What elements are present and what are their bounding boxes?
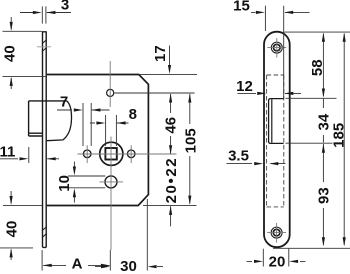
dim 40 lower — [0, 191, 42, 260]
hidden lock case (dashed) — [267, 75, 284, 207]
spindle follower circle — [100, 142, 123, 165]
left fixing hole — [83, 150, 91, 158]
dim 8 arrows — [96, 121, 125, 124]
svg-text:40: 40 — [1, 45, 18, 62]
svg-text:3: 3 — [61, 0, 69, 14]
svg-text:8: 8 — [129, 106, 137, 123]
dim 30 (spindle to case back) — [95, 266, 163, 268]
dim 7 (left hole dia) extension lines — [57, 103, 110, 146]
striking plate outline (rounded ends) — [264, 32, 290, 248]
svg-text:20•22: 20•22 — [163, 157, 180, 204]
svg-text:105: 105 — [183, 128, 200, 153]
dim 3 (faceplate thickness) — [20, 6, 71, 23]
bottom screw hole — [271, 227, 282, 238]
top reference extension line — [284, 31, 350, 33]
dim 12 — [238, 92, 302, 94]
alignment line at screw height — [37, 46, 51, 48]
right fixing hole — [127, 150, 135, 158]
case bottom extension line — [143, 205, 197, 207]
dim 8 (spindle square) extension lines — [90, 115, 129, 146]
latch bevel line — [271, 99, 273, 142]
svg-text:46: 46 — [162, 117, 179, 134]
dim 105 (hole to case bottom) — [189, 94, 191, 204]
dim 11 (latch protrusion) — [0, 147, 59, 163]
latch bottom extension line — [286, 142, 333, 144]
bottom reference extension line — [273, 247, 350, 249]
latch follower curve — [47, 101, 72, 141]
svg-text:17: 17 — [152, 45, 169, 62]
bottom screw crosshair — [267, 223, 286, 243]
faceplate break marks lower — [42, 227, 47, 238]
dim 58 — [322, 34, 324, 97]
svg-text:20: 20 — [269, 253, 286, 270]
latch top extension line — [286, 97, 337, 99]
dim 34 — [322, 99, 324, 143]
dim 93 — [322, 144, 324, 245]
vertical center line spindle-cylinder — [110, 137, 112, 251]
faceplate (left view, edge-on strip) — [43, 31, 47, 247]
lock case outline — [47, 75, 148, 206]
svg-text:7: 7 — [60, 94, 68, 111]
svg-text:15: 15 — [233, 0, 250, 14]
svg-text:185: 185 — [330, 123, 347, 148]
dim 20·22 (spindle to cylinder, variants) — [170, 206, 172, 226]
svg-text:3.5: 3.5 — [228, 148, 249, 165]
svg-text:40: 40 — [3, 221, 20, 238]
top screw crosshair — [267, 38, 286, 58]
svg-text:A: A — [72, 256, 83, 273]
dim 7 arrows — [74, 108, 101, 111]
dim 20 (plate width) — [247, 249, 306, 267]
dim 185 — [343, 34, 345, 246]
fixing hole center lines — [87, 145, 131, 163]
top hole center line — [109, 61, 111, 107]
top screw hole — [271, 42, 282, 53]
spindle row center line — [78, 153, 177, 155]
dim 15 — [251, 6, 310, 99]
cylinder hole center line — [100, 181, 124, 183]
svg-text:12: 12 — [236, 78, 253, 95]
dim 40 upper — [3, 17, 47, 89]
svg-text:30: 30 — [120, 258, 137, 274]
spindle square hole — [105, 148, 116, 160]
dim 46 (hole to spindle) — [170, 94, 172, 154]
svg-text:58: 58 — [309, 59, 326, 76]
top hole — [107, 89, 114, 96]
dim A (backset) — [42, 199, 147, 271]
hole center extension line — [115, 92, 195, 94]
svg-text:93: 93 — [316, 187, 333, 204]
svg-text:11: 11 — [0, 144, 15, 161]
cylinder hole — [105, 176, 117, 188]
latch head (front view) — [269, 99, 284, 144]
dim 10 (cylinder hole dia) — [68, 162, 105, 203]
plate front reference line — [263, 82, 265, 185]
svg-text:10: 10 — [56, 175, 73, 192]
dim 3.5 — [227, 163, 286, 165]
latch bolt (left view) — [29, 101, 67, 136]
faceplate break marks upper — [42, 40, 47, 52]
dim 17 (case top to hole) — [140, 46, 198, 75]
